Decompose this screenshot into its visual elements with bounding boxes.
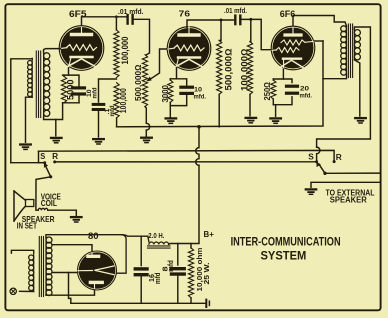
svg-text:100,000Ω: 100,000Ω: [239, 48, 249, 91]
svg-text:mfd: mfd: [92, 88, 99, 99]
left switch arm: [44, 163, 52, 179]
tube 76: [167, 27, 211, 71]
svg-text:500,000Ω: 500,000Ω: [223, 48, 233, 90]
speaker horn: [14, 191, 34, 221]
svg-text:5000: 5000: [66, 79, 76, 100]
ground PSU rail end: [206, 300, 209, 307]
svg-text:2.0 H.: 2.0 H.: [148, 231, 164, 240]
tube 80 rectifier: [78, 251, 117, 290]
wire 76 plate to second coupling cap: [187, 20, 234, 28]
wire long line upper: [39, 150, 335, 161]
svg-text:S: S: [40, 151, 45, 161]
label TO EXTERNAL SPEAKER: [326, 187, 375, 204]
wire 76 cathode lead: [176, 68, 178, 79]
wire junction to bypass cap: [99, 79, 117, 102]
potentiometer 500,000 volume control: [142, 55, 147, 107]
right switch contacts: [315, 160, 336, 163]
wire 6F5 cathode lead: [68, 68, 70, 75]
resistor 100,000 decoupling: [114, 83, 119, 118]
wire 100,000 to B+ rail corner: [116, 118, 118, 127]
wire long line lower: [55, 161, 317, 163]
wire T2 secondary bottom to ground: [354, 60, 359, 116]
wire choke to B+ riser: [169, 127, 199, 244]
wire racetrack jog to choke: [122, 235, 149, 242]
output transformer T2 secondary: [354, 30, 360, 60]
ground under 76 cathode: [166, 118, 177, 123]
wire HV top to 80 plate: [53, 245, 92, 252]
svg-text:.01 mfd.: .01 mfd.: [118, 7, 144, 16]
ground external speaker: [306, 189, 316, 194]
svg-text:3000: 3000: [160, 85, 170, 103]
capacitor 16 mfd: [135, 236, 147, 303]
capacitor .01 mfd first coupling: [128, 15, 133, 24]
label .1 mfd: [104, 106, 116, 117]
wire filament racetrack top: [46, 235, 126, 274]
junction dot 500K riser: [220, 19, 223, 22]
wire 6F6 cathode lead: [282, 69, 284, 79]
label 8 mfd: [161, 260, 176, 272]
svg-text:COIL: COIL: [41, 198, 57, 208]
ground under T1 secondary: [51, 138, 62, 143]
svg-text:100,000: 100,000: [118, 88, 128, 113]
wire pot bottom over rail to ground: [145, 107, 150, 137]
wire T1 primary top lead: [11, 59, 32, 163]
tube 6F6 pentode: [271, 26, 315, 70]
svg-text:100,000: 100,000: [120, 37, 130, 65]
label 20 mfd: [300, 85, 313, 99]
ground under 6F6 cathode: [270, 118, 281, 123]
output transformer T2 core: [348, 24, 352, 78]
svg-text:.01 mfd.: .01 mfd.: [224, 6, 247, 15]
wire coupling cap to volume control: [134, 19, 149, 55]
svg-text:INTER-COMMUNICATION: INTER-COMMUNICATION: [231, 235, 341, 248]
junction dot 100K riser: [115, 15, 118, 18]
wire 6F6 plate to output transformer: [293, 16, 347, 27]
svg-text:20: 20: [300, 85, 309, 92]
wire T3 primary bottom to plug: [20, 290, 34, 292]
wire T1 secondary bottom to ground: [44, 117, 56, 136]
label 16 mfd: [147, 273, 162, 285]
svg-text:S: S: [308, 151, 314, 161]
label SPEAKER IN SET: [17, 214, 55, 230]
ground under bypass cap: [93, 139, 104, 144]
resistor 100,000 plate load: [114, 30, 119, 78]
svg-text:B+: B+: [204, 230, 215, 239]
AC plug: [10, 288, 16, 294]
power transformer T3 secondary: [46, 237, 52, 296]
svg-text:25 W.: 25 W.: [202, 263, 211, 285]
wire T3 primary top lead: [11, 250, 33, 253]
wire arm to voice coil: [36, 177, 51, 210]
output transformer T2 primary: [341, 26, 347, 75]
wire PSU bottom rail: [71, 302, 205, 304]
power transformer T3 core: [39, 237, 43, 297]
svg-text:500,000Ω: 500,000Ω: [133, 64, 143, 101]
wire B+ vertical drop: [117, 41, 323, 127]
wire T1 primary bottom to ground: [26, 97, 33, 142]
resistor 5000 ohm: [61, 76, 66, 103]
wire 6F6 screen to B+ riser: [315, 40, 324, 42]
capacitor .1 mfd bypass: [93, 104, 104, 109]
resistor 3000 ohm: [168, 80, 173, 102]
ground voice coil: [71, 217, 82, 222]
ground under grid leak: [246, 118, 257, 123]
wire T1 secondary top to 6F5 grid: [44, 49, 61, 53]
resistor 100,000 ohm grid leak: [247, 42, 252, 95]
6F5 cathode network bottom rail and drop to ground: [56, 96, 79, 120]
right switch arm: [316, 162, 326, 175]
voice coil: [38, 208, 48, 210]
6F6 cathode network top rail: [273, 79, 292, 83]
svg-text:mfd: mfd: [109, 106, 116, 117]
label 10,000 ohm 25 W: [195, 247, 211, 291]
wire filament left tap: [53, 272, 78, 274]
svg-text:250Ω: 250Ω: [262, 82, 272, 101]
capacitor 10 mfd (6F5 cathode): [73, 88, 85, 94]
capacitor 10 mfd (76 cathode): [181, 87, 193, 93]
ground under T1 primary: [20, 145, 31, 150]
resistor 100,000 plate load riser: [115, 17, 117, 30]
76 cathode network top rail: [170, 79, 186, 85]
wire 6F5 plate to coupling cap: [82, 17, 127, 26]
pot wiper arm to 76 grid: [146, 49, 168, 81]
label 10 mfd: [86, 88, 99, 99]
wire to external speaker hot: [325, 172, 380, 174]
input transformer T1 secondary: [44, 53, 50, 117]
wire 100,000 grid leak to ground: [249, 94, 251, 116]
power transformer T3 primary: [29, 253, 34, 292]
wire left switch feed: [11, 151, 45, 163]
svg-text:mfd.: mfd.: [300, 92, 313, 99]
capacitor .01 mfd second coupling: [235, 16, 240, 25]
resistor 100,000 grid leak riser: [249, 19, 252, 41]
svg-text:IN SET: IN SET: [17, 220, 38, 230]
svg-text:10: 10: [194, 87, 202, 94]
ground under T2 secondary: [355, 118, 366, 123]
wire HV bottom to 80 plate: [46, 290, 95, 295]
resistor 250 ohm: [271, 80, 276, 99]
capacitor 8 mfd: [172, 244, 185, 304]
tube 6F5: [59, 26, 104, 71]
svg-text:SPEAKER: SPEAKER: [330, 195, 368, 205]
input transformer T1 core: [36, 51, 40, 118]
choke 2.0 H: [148, 242, 171, 248]
wire 76 cathode network to ground: [170, 96, 186, 117]
wire T2 primary bottom to B+ drop: [323, 75, 347, 79]
resistor 500,000 ohm: [217, 41, 222, 95]
svg-text:R: R: [52, 151, 59, 161]
svg-text:mfd.: mfd.: [194, 94, 207, 101]
svg-text:R: R: [336, 152, 343, 162]
wire 500,000 to B+ rail: [218, 94, 220, 127]
svg-text:76: 76: [179, 8, 191, 18]
wire T2 secondary top to switch: [317, 27, 371, 162]
wire center tap down: [69, 273, 71, 304]
wire bypass cap to ground: [98, 112, 100, 138]
svg-text:6F5: 6F5: [69, 9, 87, 20]
svg-text:mfd: mfd: [166, 260, 175, 272]
label VOICE COIL: [41, 192, 61, 208]
junction B+ rail: [197, 125, 201, 129]
svg-text:SYSTEM: SYSTEM: [261, 248, 307, 262]
wire voice coil to ground: [48, 210, 77, 215]
6F5 cathode network top rail: [63, 75, 79, 86]
title INTER-COMMUNICATION SYSTEM: [231, 235, 341, 262]
ground under volume control: [141, 138, 152, 143]
resistor 10,000 ohm bleeder: [188, 244, 193, 304]
left switch contacts: [43, 160, 56, 164]
6F6 cathode network bottom rail to ground: [273, 97, 292, 117]
wire to external speaker ground side: [311, 182, 380, 187]
resistor 500,000 plate load riser: [219, 20, 221, 41]
svg-text:80: 80: [88, 231, 99, 241]
junction dot grid leak riser: [249, 18, 252, 21]
wire second cap to 6F6 grid: [242, 19, 273, 49]
label 10 mfd 76: [194, 87, 207, 101]
capacitor 20 mfd: [287, 86, 298, 93]
input transformer T1 primary: [28, 59, 33, 98]
svg-text:mfd: mfd: [153, 273, 162, 285]
